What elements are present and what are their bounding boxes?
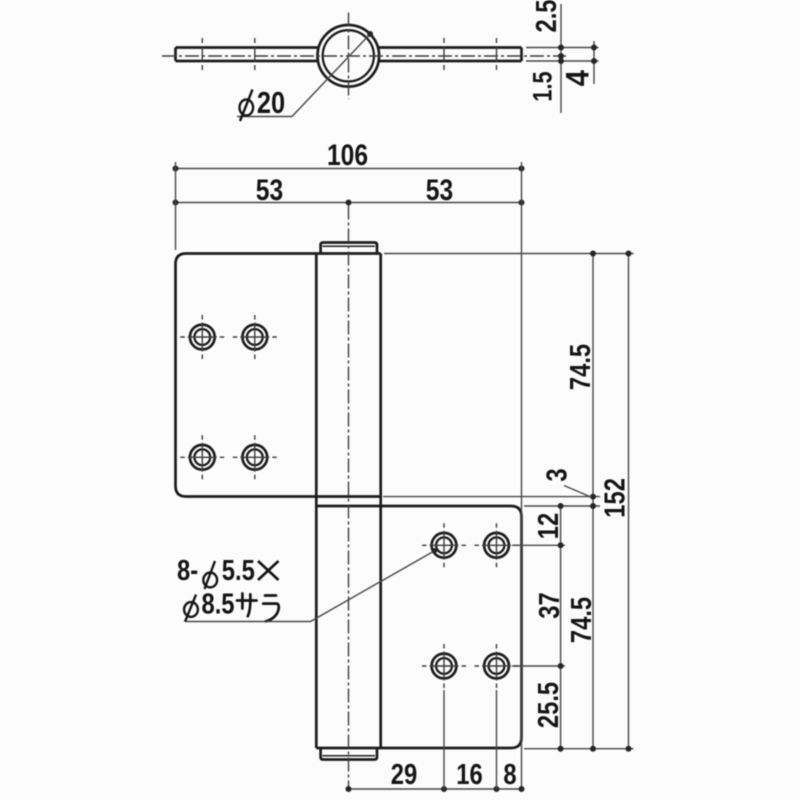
- bottom dimension line 29/16/8: [349, 788, 522, 790]
- svg-text:12: 12: [532, 513, 565, 539]
- extension lines for 106/53: [175, 162, 177, 250]
- dimension line 2.5/1.5: [560, 4, 562, 113]
- label 8-phi5.5 x phi8.5 countersunk: [177, 548, 437, 622]
- label phi20: [240, 86, 286, 121]
- svg-text:106: 106: [327, 138, 368, 172]
- katakana RA: [263, 596, 279, 622]
- dimension line 74.5 / 3 / 74.5: [592, 254, 594, 749]
- horizontal centerline of top view: [162, 55, 566, 57]
- dimension line 152: [628, 254, 630, 749]
- svg-text:74.5: 74.5: [565, 597, 598, 643]
- svg-text:5.5: 5.5: [222, 554, 255, 587]
- svg-text:53: 53: [256, 173, 283, 207]
- lower leaf outline: [316, 506, 521, 748]
- right-side extension lines: [384, 253, 634, 255]
- bottom cap: [321, 748, 377, 760]
- svg-text:8: 8: [503, 758, 516, 791]
- screw holes upper leaf: [190, 325, 267, 470]
- svg-text:20: 20: [257, 86, 285, 121]
- svg-text:8.5: 8.5: [201, 587, 234, 620]
- upper leaf outline: [176, 254, 381, 497]
- svg-text:4: 4: [559, 69, 596, 86]
- knuckle outer circle (top view): [318, 25, 380, 87]
- katakana SA: [237, 594, 257, 617]
- screw holes lower leaf: [432, 533, 509, 679]
- leader line to hole: [187, 551, 435, 622]
- knuckle inner circle (top view): [323, 30, 374, 81]
- vertical centerline of knuckle (top view): [348, 13, 350, 100]
- svg-text:37: 37: [533, 592, 566, 618]
- extension lines right of top view: [526, 48, 599, 62]
- top-view plate bar edges: [176, 48, 522, 62]
- svg-text:3: 3: [540, 468, 573, 481]
- svg-text:16: 16: [456, 758, 482, 791]
- leader line for phi20: [237, 34, 370, 117]
- svg-text:29: 29: [391, 758, 417, 791]
- barrel right edge: [379, 254, 382, 749]
- svg-text:1.5: 1.5: [529, 71, 559, 101]
- dimension line 4: [593, 41, 595, 84]
- vertical centerline (front view): [348, 206, 350, 792]
- svg-text:25.5: 25.5: [532, 682, 565, 728]
- svg-text:8-: 8-: [177, 554, 198, 587]
- hole center marks (top view): [202, 38, 496, 74]
- svg-text:152: 152: [598, 478, 631, 518]
- dimension 53 / 53: [176, 202, 522, 204]
- svg-text:53: 53: [426, 173, 453, 207]
- svg-text:2.5: 2.5: [530, 0, 563, 33]
- dimension line 12/37/25.5: [560, 506, 562, 749]
- svg-text:74.5: 74.5: [564, 344, 597, 390]
- dimension 106: [176, 168, 522, 170]
- barrel left edge: [315, 254, 318, 749]
- top cap: [321, 243, 377, 254]
- hole center cross marks: [180, 315, 518, 688]
